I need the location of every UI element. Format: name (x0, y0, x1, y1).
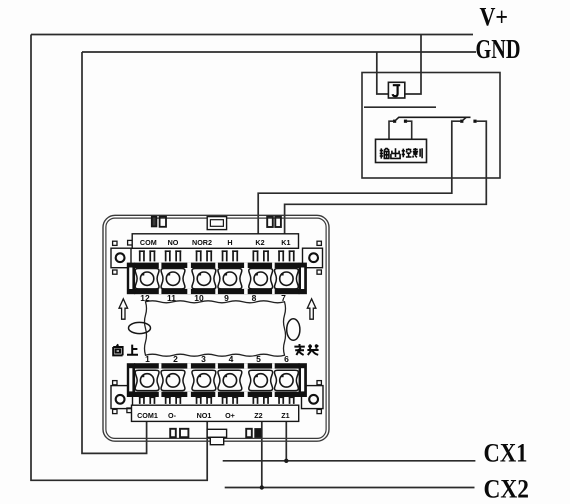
svg-text:O-: O- (168, 411, 177, 420)
wire V+ left loop to terminal NO1 (31, 35, 207, 481)
wire GND left loop to terminal COM1 (82, 52, 147, 453)
relay unit box (362, 73, 500, 179)
bottom terminal label strip (132, 405, 299, 421)
bottom screw terminals 1-6 (135, 370, 298, 390)
label anzhuang (Chinese: install) (294, 344, 318, 355)
bottom clamp row (139, 397, 295, 404)
svg-text:Z1: Z1 (281, 411, 289, 420)
svg-text:O+: O+ (225, 411, 235, 420)
label xiangshang (Chinese: upward) (113, 344, 138, 355)
svg-text:1: 1 (145, 354, 150, 364)
svg-text:4: 4 (229, 354, 234, 364)
svg-text:NO1: NO1 (197, 411, 212, 420)
oval cutout left (129, 322, 151, 333)
svg-text:3: 3 (201, 354, 206, 364)
bottom row end plate left (127, 363, 135, 397)
module inner shell (106, 218, 326, 438)
top notch pair left (152, 217, 166, 227)
wire terminal Z1 to CX1 (285, 422, 287, 461)
relay contact S2 (460, 117, 476, 122)
wire GND feed line (82, 51, 476, 53)
wire S1 terminals to control box (389, 121, 412, 139)
svg-text:K2: K2 (255, 238, 264, 247)
wire GND branch to coil (377, 52, 389, 94)
top strip left tab (128, 240, 133, 245)
svg-text:COM1: COM1 (137, 411, 158, 420)
svg-text:COM: COM (140, 238, 157, 247)
top clamp row (139, 250, 295, 261)
corner screw plate top-left (111, 241, 131, 274)
top terminal label strip (132, 234, 298, 249)
svg-text:6: 6 (284, 354, 289, 364)
junction dot Z1/CX1 (284, 459, 288, 463)
svg-text:CX2: CX2 (484, 474, 530, 504)
top terminal bar lower (134, 289, 300, 294)
top row end plate left (127, 263, 135, 295)
up arrow left (119, 299, 128, 319)
svg-text:GND: GND (476, 33, 521, 64)
svg-text:V+: V+ (480, 3, 509, 32)
central opening (145, 301, 286, 356)
wire V+ feed line (31, 34, 473, 36)
up arrow right (307, 299, 316, 319)
corner screw plate top-right (303, 241, 323, 274)
wire CX2 line (225, 487, 475, 489)
label output-control (Chinese) (380, 148, 422, 159)
wire CX1 line (223, 460, 476, 462)
svg-text:NOR2: NOR2 (192, 238, 212, 247)
wire terminal Z2 to CX2 (261, 422, 263, 488)
top row end plate right (299, 263, 307, 295)
junction dot Z2/CX2 (260, 485, 264, 489)
bottom notch pair left (170, 429, 188, 437)
wire S2 terminal a to K2 (258, 121, 461, 234)
bottom strip left tab (127, 408, 132, 413)
top terminal bar upper (134, 263, 300, 268)
bottom terminal bar lower (134, 392, 300, 397)
corner screw plate bottom-left (111, 381, 133, 414)
terminal numbers 12-7 (140, 293, 286, 303)
relay coil J (388, 82, 404, 98)
svg-text:5: 5 (256, 354, 261, 364)
relay contact S1 (393, 117, 471, 122)
oval cutout right (287, 319, 300, 341)
top screw terminals 12-7 (135, 269, 298, 289)
wire V+ branch to coil (405, 35, 421, 95)
svg-text:CX1: CX1 (484, 438, 528, 468)
wire S2 terminal b to K1 (285, 121, 487, 234)
top center tab (207, 217, 226, 230)
bottom notch pair right (246, 429, 261, 437)
svg-text:H: H (227, 238, 232, 247)
svg-text:Z2: Z2 (254, 411, 262, 420)
bottom row end plate right (299, 363, 307, 397)
output control box (376, 139, 427, 162)
svg-text:2: 2 (173, 354, 178, 364)
svg-text:NO: NO (168, 238, 179, 247)
bottom terminal bar upper (134, 363, 300, 368)
module outer shell (103, 215, 329, 441)
corner screw plate bottom-right (302, 381, 324, 414)
bottom center tab (207, 429, 226, 444)
terminal numbers 1-6 (145, 354, 289, 364)
top notch pair right (267, 217, 281, 227)
svg-text:K1: K1 (281, 238, 290, 247)
separator line (364, 106, 436, 108)
